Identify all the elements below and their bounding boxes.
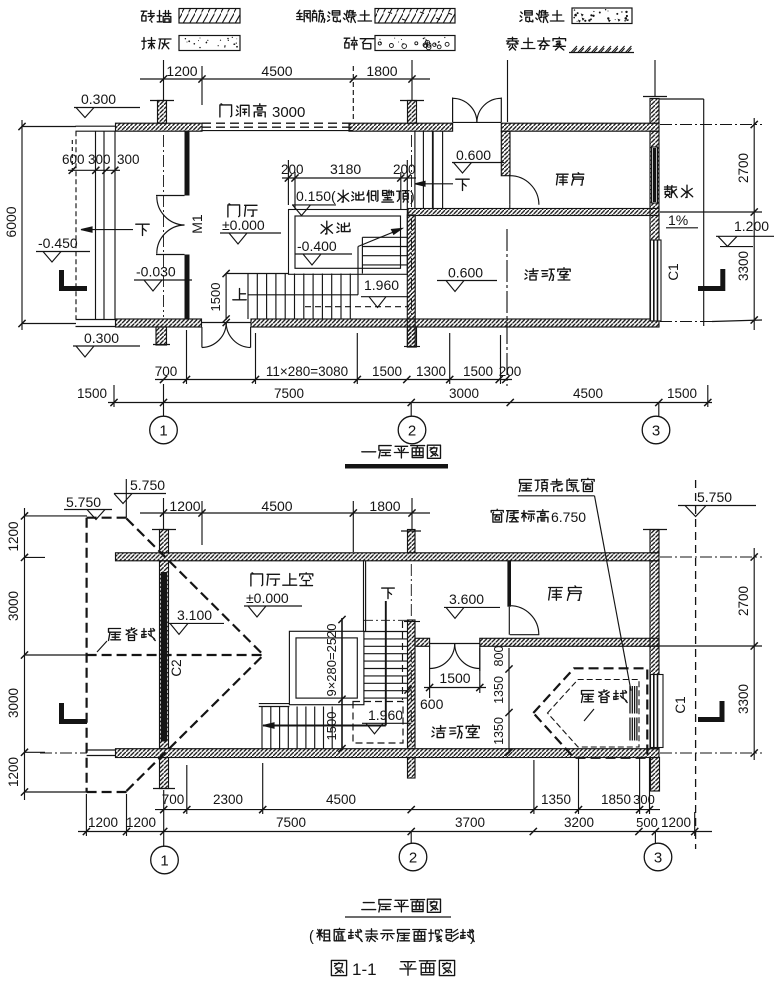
svg-text:1200: 1200 bbox=[169, 498, 200, 514]
section cut mark bottom-left (thick L) bbox=[59, 270, 64, 291]
svg-text:-0.030: -0.030 bbox=[136, 264, 176, 280]
stair direction line floor2 (down) bbox=[382, 588, 395, 599]
svg-text:11×280=3080: 11×280=3080 bbox=[266, 364, 348, 379]
top wall hatched x353-452 bbox=[349, 123, 453, 131]
ridge line 屋脊线 dashed bbox=[87, 654, 264, 656]
axis-2 dash-dot vertical floor1 bbox=[411, 135, 413, 207]
stairwell opening edge line bbox=[363, 561, 365, 632]
upper stair flight treads (over pool) bbox=[362, 236, 407, 238]
svg-text:300: 300 bbox=[633, 792, 655, 807]
svg-text:4500: 4500 bbox=[261, 63, 292, 79]
axis-2 wall stub below bottom wall bbox=[408, 327, 417, 347]
axis-2 wall floor2 (lower part) bbox=[408, 620, 416, 749]
svg-text:1350: 1350 bbox=[492, 676, 506, 704]
bottom wall: porch slab bbox=[76, 319, 116, 321]
svg-text:1300: 1300 bbox=[416, 364, 446, 379]
label 屋脊线 left bbox=[109, 628, 156, 641]
storeroom label 库房 bbox=[557, 173, 584, 185]
svg-text:): ) bbox=[470, 929, 475, 945]
axis-1 wall stub above top wall bbox=[158, 101, 167, 124]
label door-opening height 3000 bbox=[220, 104, 266, 117]
svg-text:1500: 1500 bbox=[77, 386, 107, 401]
top wall hatched x115-202 bbox=[116, 123, 203, 131]
svg-text:3000: 3000 bbox=[272, 104, 305, 121]
stair dim line 9x280=2520 and 1500 rotated bbox=[341, 618, 343, 750]
apron dashed line right floor2 bbox=[695, 480, 697, 849]
svg-text:±0.000: ±0.000 bbox=[222, 217, 265, 233]
double entrance door at top wall (1500) bbox=[453, 121, 502, 123]
roof pentagon right (thick dashed) bbox=[533, 668, 647, 758]
axis-1 stub above top wall floor2 bbox=[160, 530, 169, 553]
window C1 floor2 east wall bbox=[651, 675, 664, 748]
svg-text:3700: 3700 bbox=[455, 815, 485, 830]
window in east wall (storeroom) bbox=[652, 147, 658, 203]
legend label plaster bbox=[142, 38, 171, 50]
axis bubble 1 floor2 bbox=[163, 790, 165, 846]
double door 1500 floor2 bbox=[429, 646, 431, 671]
back stair treads (down to rear door) bbox=[414, 131, 416, 208]
legend swatch rammed earth bbox=[571, 46, 577, 53]
svg-text:3000: 3000 bbox=[449, 386, 479, 401]
svg-text:700: 700 bbox=[155, 364, 178, 379]
axis-2 dash-dot floor2 bbox=[410, 564, 412, 617]
legend label reinforced concrete bbox=[297, 10, 372, 22]
svg-text:1200: 1200 bbox=[6, 757, 21, 787]
upper stair flight treads floor2 bbox=[364, 631, 408, 633]
apron line 散水 around east side bbox=[659, 98, 704, 100]
svg-text:9×280=2520: 9×280=2520 bbox=[324, 623, 339, 696]
axis bubble 3 bbox=[658, 403, 660, 416]
floor1 bottom dim row 2: 1500 7500 3000 4500 1500 bbox=[108, 402, 712, 404]
floor2 top wall hatched bbox=[116, 553, 660, 561]
axis-1 wall stub below bottom wall bbox=[156, 327, 167, 345]
svg-text:1350: 1350 bbox=[541, 792, 571, 807]
roof projection dashed outline (thick dashed) bbox=[85, 518, 87, 792]
svg-text:3200: 3200 bbox=[564, 815, 594, 830]
dim 1500 door floor2 bbox=[424, 687, 486, 689]
storeroom door floor2 bbox=[508, 607, 510, 635]
svg-text:1: 1 bbox=[159, 423, 167, 440]
section cut mark right (thick L) bbox=[720, 269, 725, 291]
foyer south double door bbox=[202, 322, 251, 324]
svg-text:300: 300 bbox=[117, 152, 140, 167]
svg-text:3000: 3000 bbox=[6, 591, 21, 621]
storeroom partition wall floor2 (thick) bbox=[507, 561, 511, 607]
svg-text:300: 300 bbox=[88, 152, 111, 167]
svg-text:600: 600 bbox=[62, 152, 85, 167]
svg-text:3180: 3180 bbox=[330, 161, 361, 177]
svg-text:-0.450: -0.450 bbox=[38, 235, 78, 251]
stair rail double rectangle floor2 bbox=[289, 631, 364, 704]
svg-text:200: 200 bbox=[499, 364, 522, 379]
M1 door wall (vertical, thick) bbox=[185, 131, 190, 195]
svg-text:4500: 4500 bbox=[573, 386, 603, 401]
svg-text:1.960: 1.960 bbox=[364, 277, 399, 293]
svg-text:6.750: 6.750 bbox=[551, 509, 586, 525]
dim row top: 1200 4500 1800 bbox=[140, 78, 430, 80]
right dim line floor2 2700 3300 bbox=[753, 548, 755, 760]
svg-text:3.100: 3.100 bbox=[177, 607, 212, 623]
svg-text:1: 1 bbox=[160, 853, 168, 870]
hip line bottom-left to ridge apex bbox=[127, 655, 264, 791]
top wall hatched x501-650 bbox=[501, 123, 659, 131]
svg-text:6000: 6000 bbox=[3, 206, 19, 237]
svg-text:7500: 7500 bbox=[276, 815, 306, 830]
svg-text:700: 700 bbox=[162, 792, 185, 807]
storeroom label floor2 bbox=[549, 586, 582, 600]
storeroom west wall piece bbox=[501, 131, 510, 176]
legend label brick wall bbox=[141, 11, 171, 23]
legend swatch reinforced concrete bbox=[375, 9, 455, 24]
legend label concrete bbox=[520, 11, 564, 23]
svg-text:0.300: 0.300 bbox=[81, 91, 116, 107]
dim 600 300 300 bbox=[68, 169, 120, 171]
svg-text:200: 200 bbox=[393, 162, 416, 177]
axis-3 corner wall stub above bbox=[650, 99, 659, 124]
stair mid landing dashed edge bbox=[305, 306, 409, 308]
svg-text:1200: 1200 bbox=[88, 815, 118, 830]
svg-text:3.600: 3.600 bbox=[449, 591, 484, 607]
storeroom door arc bbox=[509, 176, 511, 205]
stair width dim 1500 rotated bbox=[225, 274, 227, 321]
svg-text:1850: 1850 bbox=[601, 792, 631, 807]
storeroom bottom wall floor2 hatched bbox=[415, 638, 430, 646]
svg-text:5.750: 5.750 bbox=[130, 477, 165, 493]
activity room label 活动室 and level 0.600 bbox=[525, 268, 570, 281]
legend swatch gravel bbox=[375, 36, 455, 51]
legend label rammed earth bbox=[507, 37, 566, 50]
window C1 in east wall (activity room) bbox=[651, 240, 662, 321]
svg-text:7500: 7500 bbox=[274, 386, 304, 401]
axis-2 wall right of pool bbox=[407, 215, 415, 319]
floor-1 plan bbox=[3, 60, 774, 466]
svg-text:C1: C1 bbox=[673, 696, 688, 713]
svg-text:1.200: 1.200 bbox=[734, 218, 769, 234]
water pool outer wall bbox=[289, 210, 408, 275]
svg-text:1200: 1200 bbox=[6, 521, 21, 551]
svg-text:600: 600 bbox=[420, 696, 444, 712]
label down arrow at porch bbox=[136, 224, 149, 235]
bottom wall hatched x251-650 bbox=[251, 319, 659, 327]
svg-text:0.300: 0.300 bbox=[84, 330, 119, 346]
floor2 bottom dim row 2: 1200 1200 7500 3700 3200 500 1200 bbox=[78, 831, 712, 833]
svg-text:2300: 2300 bbox=[213, 792, 243, 807]
top wall door opening 4500 with lintel dashes bbox=[202, 122, 353, 124]
svg-text:5.750: 5.750 bbox=[66, 494, 101, 510]
axis bubble 3 floor2 bbox=[654, 832, 656, 843]
svg-text:1.960: 1.960 bbox=[368, 707, 403, 723]
foyer void label 门厅上空 ±0.000 bbox=[251, 573, 313, 586]
svg-text:(: ( bbox=[309, 929, 314, 945]
axis-3 stub above top wall floor2 bbox=[650, 530, 659, 553]
axis-3 east wall bbox=[650, 131, 659, 319]
svg-text:800: 800 bbox=[492, 646, 506, 667]
label 屋脊线 right bbox=[582, 690, 628, 703]
landing edge dash line floor2 bbox=[364, 619, 408, 621]
foyer label and level ±0.000 bbox=[228, 204, 257, 217]
pool label 水池 -0.400 bbox=[321, 221, 350, 234]
dim row top floor2: 1200 4500 1800 bbox=[140, 512, 430, 514]
svg-text:±0.000: ±0.000 bbox=[246, 590, 289, 606]
axis-1 dash-dot line in porch bbox=[163, 135, 165, 317]
roof pentagon inner (thin dashed) bbox=[548, 680, 640, 748]
svg-text:0.600: 0.600 bbox=[448, 265, 483, 281]
top wall: porch slab bbox=[76, 125, 116, 127]
left dim line floor2: 1200 3000 3000 1200 bbox=[24, 508, 26, 800]
axis bubble 1 bbox=[163, 384, 165, 416]
svg-text:5.750: 5.750 bbox=[697, 489, 732, 505]
svg-text:1-1: 1-1 bbox=[352, 960, 377, 979]
floor1 bottom dim row 1: 700, 11x280=3080, 1500, 1300, 1500, 200 bbox=[155, 379, 512, 381]
svg-text:C2: C2 bbox=[169, 659, 184, 676]
stair label 上 (up) and direction line bbox=[233, 289, 246, 300]
svg-text:1200: 1200 bbox=[661, 815, 691, 830]
legend label gravel bbox=[344, 37, 374, 49]
C2 window wall on axis-1 bbox=[160, 561, 169, 749]
label 散水 bbox=[665, 185, 693, 197]
dim 200 3180 200 above pool bbox=[282, 177, 416, 179]
axis-2 wall stub above top wall bbox=[408, 101, 417, 124]
svg-text:1500: 1500 bbox=[463, 364, 493, 379]
floor-2 plan bbox=[6, 477, 762, 979]
svg-text:3: 3 bbox=[654, 850, 662, 867]
svg-text:1200: 1200 bbox=[126, 815, 156, 830]
label 屋顶老虎窗 bbox=[520, 478, 595, 491]
axis-1 stub below bottom wall floor2 bbox=[160, 758, 169, 789]
hip line top-left to ridge apex bbox=[127, 519, 264, 656]
svg-text:1500: 1500 bbox=[208, 283, 223, 312]
svg-text:500: 500 bbox=[636, 815, 658, 830]
right vertical dim chain 800 1350 1350 bbox=[508, 648, 510, 753]
storeroom bottom wall hatched bbox=[408, 209, 659, 216]
svg-text:1500: 1500 bbox=[439, 670, 470, 686]
svg-text:1800: 1800 bbox=[366, 63, 397, 79]
title floor-2 plan 二层平面图 bbox=[362, 899, 441, 912]
svg-text:2: 2 bbox=[408, 423, 416, 440]
lower stair flight treads floor2 bbox=[259, 703, 290, 705]
bottom wall hatched x115-201 bbox=[116, 319, 202, 327]
back stair down label and arrow bbox=[415, 183, 453, 185]
floor2 bottom dim row 1: 700 2300 4500 / 1350 1850 300 bbox=[155, 809, 660, 811]
svg-text:200: 200 bbox=[281, 162, 304, 177]
svg-text:1500: 1500 bbox=[324, 712, 339, 741]
dim 600 tick floor2 bbox=[404, 686, 411, 693]
svg-text:0.600: 0.600 bbox=[456, 147, 491, 163]
water pool inner wall bbox=[295, 216, 401, 268]
section cut mark right floor2 (thick L) bbox=[720, 701, 725, 721]
svg-text:1%: 1% bbox=[668, 212, 688, 228]
legend swatch concrete bbox=[572, 8, 632, 24]
svg-text:1350: 1350 bbox=[492, 717, 506, 745]
svg-text:2700: 2700 bbox=[736, 153, 751, 183]
right dim line 2700 3300 bbox=[753, 118, 755, 330]
axis bubble 2 floor2 bbox=[410, 832, 412, 843]
svg-text:2700: 2700 bbox=[736, 586, 751, 616]
axis bubble 2 bbox=[410, 403, 412, 416]
svg-text:3000: 3000 bbox=[6, 688, 21, 718]
axis-2 stub above top wall floor2 bbox=[408, 530, 416, 553]
bottom wall axis dash-dot extensions floor2 bbox=[40, 752, 87, 754]
svg-text:): ) bbox=[410, 188, 415, 204]
svg-text:3: 3 bbox=[652, 423, 660, 440]
legend swatch brick wall bbox=[179, 9, 240, 24]
porch entry steps bbox=[75, 131, 77, 319]
leader from label to dormer bbox=[595, 496, 632, 691]
floor2 bottom wall hatched bbox=[116, 749, 660, 758]
svg-text:1500: 1500 bbox=[372, 364, 402, 379]
svg-text:-0.400: -0.400 bbox=[297, 238, 337, 254]
door M1 double leaf arcs bbox=[156, 195, 185, 197]
legend swatch plaster bbox=[179, 36, 240, 51]
axis-3 wall floor2 bbox=[650, 561, 659, 749]
svg-text:4500: 4500 bbox=[326, 792, 356, 807]
title floor-1 plan 一层平面图 bbox=[362, 445, 441, 458]
svg-text:M1: M1 bbox=[189, 214, 205, 234]
left dim 6000 bbox=[21, 120, 23, 330]
label 窗底标高6.750 bbox=[491, 509, 548, 522]
activity room label floor2 bbox=[432, 725, 479, 738]
svg-text:1200: 1200 bbox=[166, 63, 197, 79]
section cut mark left floor2 (thick L) bbox=[59, 703, 64, 724]
svg-text:3300: 3300 bbox=[736, 684, 751, 714]
svg-text:1500: 1500 bbox=[667, 386, 697, 401]
svg-text:0.150(: 0.150( bbox=[296, 188, 336, 204]
caption 图 1-1 平面图 bbox=[331, 960, 346, 975]
stair flight (up) with treads bbox=[226, 273, 289, 275]
roof dormer window 屋顶老虎窗 bbox=[629, 686, 631, 714]
svg-text:4500: 4500 bbox=[261, 498, 292, 514]
svg-text:C1: C1 bbox=[666, 263, 681, 280]
dashed pool projection under stair floor2 bbox=[353, 702, 403, 744]
svg-text:2: 2 bbox=[409, 850, 417, 867]
svg-text:3300: 3300 bbox=[736, 251, 751, 281]
svg-text:1800: 1800 bbox=[369, 498, 400, 514]
